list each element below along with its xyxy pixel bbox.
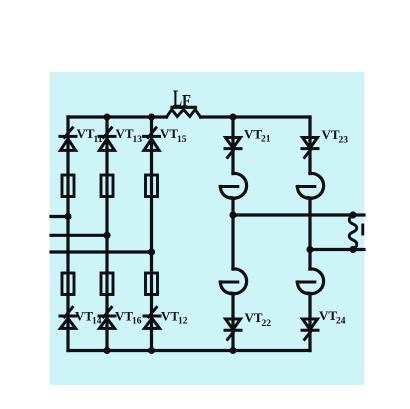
thyristor VT12 [144, 307, 160, 328]
thyristor VT24 [302, 319, 318, 340]
reactor loop L2 (above VT22) [220, 269, 246, 294]
wire load top line [233, 213, 364, 216]
thyristor VT21 [225, 138, 241, 158]
inductor load coil [349, 215, 357, 250]
wire vertical branch 2 (x=107) [105, 117, 108, 351]
junction top bus at branch 3 [148, 114, 155, 121]
svg-text:24: 24 [336, 317, 346, 327]
junction load bottom right [349, 246, 356, 253]
svg-text:VT: VT [160, 126, 178, 141]
junction load top left [229, 211, 236, 218]
junction phase A [64, 213, 71, 220]
svg-text:23: 23 [339, 135, 349, 145]
svg-text:VT: VT [161, 309, 179, 324]
svg-text:VT: VT [75, 309, 93, 324]
svg-text:VT: VT [77, 126, 95, 141]
fuse FU1 upper [62, 175, 74, 197]
svg-text:15: 15 [177, 135, 187, 145]
svg-text:VT: VT [245, 310, 263, 325]
junction phase C [148, 248, 155, 255]
svg-text:VT: VT [115, 309, 133, 324]
svg-text:L: L [173, 86, 182, 111]
junction bottom bus at branch 4 [230, 347, 237, 354]
wire phase input B [51, 234, 107, 237]
junction bottom bus at branch 3 [148, 347, 155, 354]
junction top bus at branch 4 [230, 114, 237, 121]
svg-text:14: 14 [92, 317, 102, 327]
svg-text:VT: VT [116, 126, 134, 141]
svg-text:16: 16 [132, 317, 142, 327]
wire bottom bus [68, 349, 310, 352]
svg-text:VT: VT [322, 127, 340, 142]
svg-text:VT: VT [244, 126, 262, 141]
svg-text:11: 11 [94, 135, 103, 145]
thyristor VT11 [60, 128, 76, 151]
junction load bottom left [306, 246, 313, 253]
wire top bus right segment [201, 115, 311, 118]
reactor loop L3 (below VT23) [297, 173, 323, 198]
wire vertical branch 1 (x=68) [66, 117, 69, 351]
wire phase input A [51, 215, 68, 218]
fuse FU2 upper [101, 175, 113, 197]
thyristor VT14 [60, 307, 76, 328]
svg-text:VT: VT [319, 308, 337, 323]
wire load bottom line [310, 248, 364, 251]
wire vertical branch 3 (x=151.5) [150, 117, 153, 351]
thyristor VT23 [302, 138, 318, 158]
thyristor VT13 [99, 128, 115, 151]
thyristor VT15 [144, 128, 160, 151]
junction top bus at branch 2 [104, 114, 111, 121]
wire vertical branch 4 (x=233) [231, 117, 234, 351]
wire vertical branch 5 (x=310) [308, 117, 311, 351]
inductor LF [167, 107, 201, 117]
junction bottom bus at branch 2 [104, 347, 111, 354]
fuse FU6 lower [146, 273, 158, 295]
svg-text:F: F [182, 91, 191, 110]
svg-text:22: 22 [262, 319, 272, 329]
svg-text:13: 13 [133, 135, 143, 145]
reactor loop L1 (below VT21) [220, 173, 246, 198]
fuse FU4 lower [62, 273, 74, 295]
load label fragment (clipped at edge) [361, 225, 364, 234]
wire top bus left segment [68, 115, 167, 118]
junction load top right [349, 211, 356, 218]
thyristor VT16 [99, 307, 115, 328]
wire phase input C [51, 250, 152, 253]
svg-text:21: 21 [261, 135, 271, 145]
reactor loop L4 (above VT24) [297, 269, 323, 294]
junction phase B [103, 232, 110, 239]
fuse FU5 lower [101, 273, 113, 295]
thyristor VT22 [225, 319, 241, 340]
cyan schematic background panel [50, 72, 364, 385]
fuse FU3 upper [146, 175, 158, 197]
svg-text:12: 12 [178, 317, 188, 327]
